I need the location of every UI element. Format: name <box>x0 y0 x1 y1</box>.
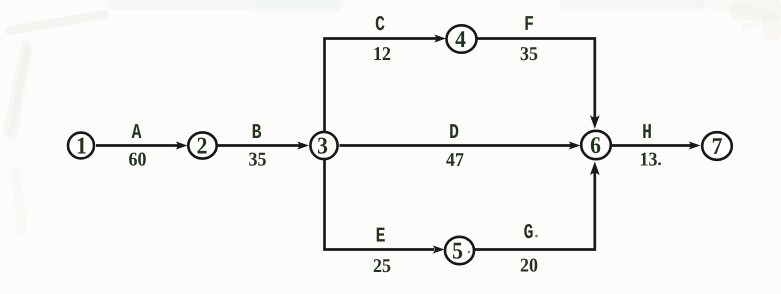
value 12 <box>373 44 391 65</box>
label E <box>376 226 386 249</box>
svg-text:35: 35 <box>249 150 267 171</box>
wire: F from node 4 right, corner down to node 6 <box>476 39 595 121</box>
wire: C branch up from node 3 and across <box>325 39 437 134</box>
svg-text:5: 5 <box>452 239 463 265</box>
svg-text:7: 7 <box>712 134 723 160</box>
scan smudge left-mid vertical <box>7 45 32 140</box>
svg-text:35: 35 <box>520 44 538 65</box>
value 35 (F) <box>520 44 538 65</box>
label B <box>252 122 262 145</box>
svg-text:3: 3 <box>317 134 328 160</box>
node 5 <box>445 237 474 265</box>
scan smudge bottom-left <box>10 165 27 236</box>
label D <box>449 122 459 145</box>
svg-text:C: C <box>375 14 385 37</box>
wire: activity H from node 6 to node 7 <box>611 144 691 147</box>
arrowhead into node 7 <box>689 141 701 149</box>
faint scan band top edge mid <box>255 0 340 13</box>
svg-text:1: 1 <box>76 134 87 160</box>
arrowhead up into node 6 <box>590 162 600 176</box>
arrowhead into node 3 <box>297 141 309 149</box>
node 6 <box>581 131 611 159</box>
svg-text:6: 6 <box>590 133 601 159</box>
arrowhead down into node 6 <box>590 115 600 129</box>
svg-text:E: E <box>376 226 386 249</box>
arrowhead into node 4 <box>434 34 446 42</box>
node 7 <box>702 132 732 160</box>
arrowhead into node 6 <box>569 141 581 149</box>
value 35 <box>249 150 267 171</box>
scan smudge top-left diagonal <box>2 9 110 138</box>
arrowhead into node 2 <box>176 141 188 149</box>
faint warm mottle top-right corner <box>730 0 781 20</box>
node 1 <box>68 133 94 160</box>
wire: activity B from node 2 to node 3 <box>218 144 301 147</box>
svg-text:12: 12 <box>373 44 391 65</box>
svg-text:60: 60 <box>129 150 147 171</box>
label C <box>375 14 385 37</box>
wire: activity D from node 3 to node 6 <box>340 144 572 147</box>
node 4 <box>447 25 477 53</box>
label F <box>524 14 534 37</box>
label H <box>642 122 652 145</box>
svg-text:H: H <box>642 122 652 145</box>
wire: G from node 5 right, corner up to node 6 <box>475 172 595 250</box>
node 3 <box>310 132 337 160</box>
label A <box>132 122 142 145</box>
svg-text:2: 2 <box>197 134 208 160</box>
label G <box>524 222 538 245</box>
svg-text:13: 13 <box>640 150 658 171</box>
svg-text:A: A <box>132 122 142 145</box>
svg-text:4: 4 <box>455 27 466 53</box>
svg-text:20: 20 <box>520 256 538 277</box>
svg-text:47: 47 <box>446 150 464 171</box>
arrowhead into node 5 <box>433 245 445 253</box>
svg-text:F: F <box>524 14 534 37</box>
wire: E branch down from node 3 and across <box>325 158 435 250</box>
scan smudge top-right <box>690 0 771 18</box>
value 25 <box>373 256 391 277</box>
svg-text:D: D <box>449 122 459 145</box>
faint scan band top edge right <box>560 0 705 10</box>
svg-text:25: 25 <box>373 256 391 277</box>
wire: activity A from node 1 to node 2 <box>96 144 178 147</box>
value 13. <box>640 150 661 171</box>
svg-text:G: G <box>524 222 534 245</box>
node 2 <box>188 132 216 159</box>
svg-text:B: B <box>252 122 262 145</box>
value 20 <box>520 256 538 277</box>
value 47 <box>446 150 464 171</box>
value 60 <box>129 150 147 171</box>
faint scan band top edge left <box>108 0 343 9</box>
